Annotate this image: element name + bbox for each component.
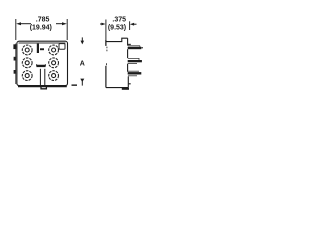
dimension .375 outside arrow left xyxy=(100,23,102,25)
center key boss below flange xyxy=(41,86,46,89)
socket 1 (row1 col1) xyxy=(22,45,32,55)
dim A arrow up xyxy=(80,79,84,83)
side view top edge with step xyxy=(106,38,128,41)
center key channel xyxy=(39,69,41,86)
svg-text:.785: .785 xyxy=(36,17,50,24)
left latch tab row3 xyxy=(14,70,16,74)
left latch tab row2 xyxy=(14,57,16,61)
svg-text:A: A xyxy=(80,60,85,67)
left latch tab row1 xyxy=(13,44,16,49)
svg-text:(19.94): (19.94) xyxy=(30,25,52,32)
dimension .375 outside arrow right xyxy=(134,23,137,25)
dimension .785 line right with arrow xyxy=(56,23,63,25)
dimension .785 extension line left xyxy=(15,19,17,40)
svg-text:(9.53): (9.53) xyxy=(108,25,126,32)
front view inner left wall line xyxy=(15,44,17,85)
center key staple xyxy=(37,64,46,65)
keying pocket top-right xyxy=(59,44,65,50)
pin 1 nub xyxy=(128,44,131,45)
socket 6 (row3 col2) xyxy=(49,71,59,81)
dimension .785 line left with arrow xyxy=(21,23,32,25)
side view right edge between pin2 pin3 xyxy=(127,64,129,72)
socket 5 (row3 col1) xyxy=(22,71,32,81)
front view housing outline xyxy=(17,41,68,85)
pin 1 xyxy=(128,45,140,47)
pin 3 xyxy=(128,70,139,72)
side view bottom edge xyxy=(106,87,129,89)
center key dash mid xyxy=(40,48,44,50)
center key slot top xyxy=(37,44,39,53)
board lock foot xyxy=(122,88,129,90)
dimension .375 extension line right xyxy=(129,21,131,30)
side view left edge lower xyxy=(105,66,107,88)
dimension .785 extension line right xyxy=(66,19,68,40)
side view right edge step tick xyxy=(128,83,130,84)
pin 2 xyxy=(128,58,139,60)
socket 3 (row2 col1) xyxy=(22,58,32,68)
dim A bottom extension dash xyxy=(72,84,78,86)
socket 2 (row1 col2) xyxy=(49,45,59,55)
side view left edge upper xyxy=(105,40,107,46)
side view right edge below pin3 xyxy=(127,76,129,87)
socket 4 (row2 col2) xyxy=(49,58,59,68)
front view bottom flange thick edge xyxy=(18,86,67,88)
dim A arrow down xyxy=(81,37,83,41)
side view right edge between pin1 pin2 xyxy=(127,49,129,58)
front view inner top wall line xyxy=(19,42,66,44)
side view right edge top segment xyxy=(127,38,129,45)
side view left edge hidden dots xyxy=(106,47,108,66)
pin 1 tip xyxy=(141,47,143,48)
svg-text:.375: .375 xyxy=(112,16,126,23)
dimension .375 extension line left xyxy=(105,20,107,46)
